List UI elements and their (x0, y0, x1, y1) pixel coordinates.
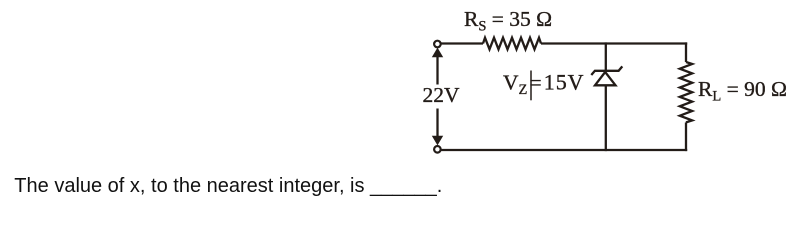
svg-text:=: = (530, 71, 542, 95)
svg-text:22V: 22V (423, 83, 461, 107)
svg-text:RL = 90 Ω: RL = 90 Ω (698, 77, 787, 105)
svg-text:15V: 15V (544, 70, 585, 95)
svg-text:VZ: VZ (503, 71, 528, 99)
svg-text:The value of x, to the nearest: The value of x, to the nearest integer, … (14, 175, 442, 197)
svg-text:RS = 35 Ω: RS = 35 Ω (464, 7, 552, 35)
